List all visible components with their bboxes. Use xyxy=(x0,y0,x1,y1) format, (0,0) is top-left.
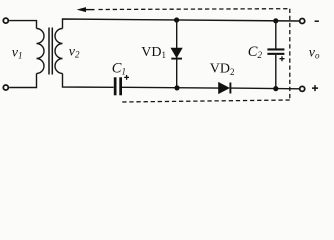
wire secondary top / top rail xyxy=(63,19,300,29)
node top of VD1 xyxy=(174,17,179,22)
wire primary bottom to terminal bottom-left xyxy=(9,74,36,88)
transformer secondary winding xyxy=(55,29,62,74)
node top of C2 xyxy=(273,18,278,23)
polarity + of C1 xyxy=(124,75,129,80)
diode VD2 xyxy=(219,82,230,93)
dashed loop right xyxy=(289,9,291,100)
transformer core xyxy=(48,28,50,75)
terminal bottom-left xyxy=(3,85,8,90)
minus sign xyxy=(315,20,319,22)
dashed loop top xyxy=(99,8,290,11)
capacitor C1 xyxy=(114,77,117,95)
transformer primary winding xyxy=(37,29,45,74)
diode VD1 xyxy=(171,48,182,58)
polarity + of C2 xyxy=(280,56,285,61)
wire secondary bottom / bottom rail left part xyxy=(63,74,114,88)
node bottom of VD1 xyxy=(174,85,179,90)
wire VD2 to bottom-right terminal xyxy=(230,87,299,90)
terminal top-left xyxy=(3,18,8,23)
wire top-left to primary top xyxy=(9,21,36,29)
plus sign xyxy=(312,85,318,91)
wire C1 to VD2 anode xyxy=(122,86,219,89)
node bottom of C2 xyxy=(273,86,278,91)
terminal top-right xyxy=(300,19,305,24)
dashed loop bottom xyxy=(121,100,290,102)
terminal bottom-right xyxy=(300,86,305,91)
capacitor C2 xyxy=(275,21,277,49)
current loop arrow xyxy=(77,7,86,12)
wire VD1 branch xyxy=(176,20,178,88)
